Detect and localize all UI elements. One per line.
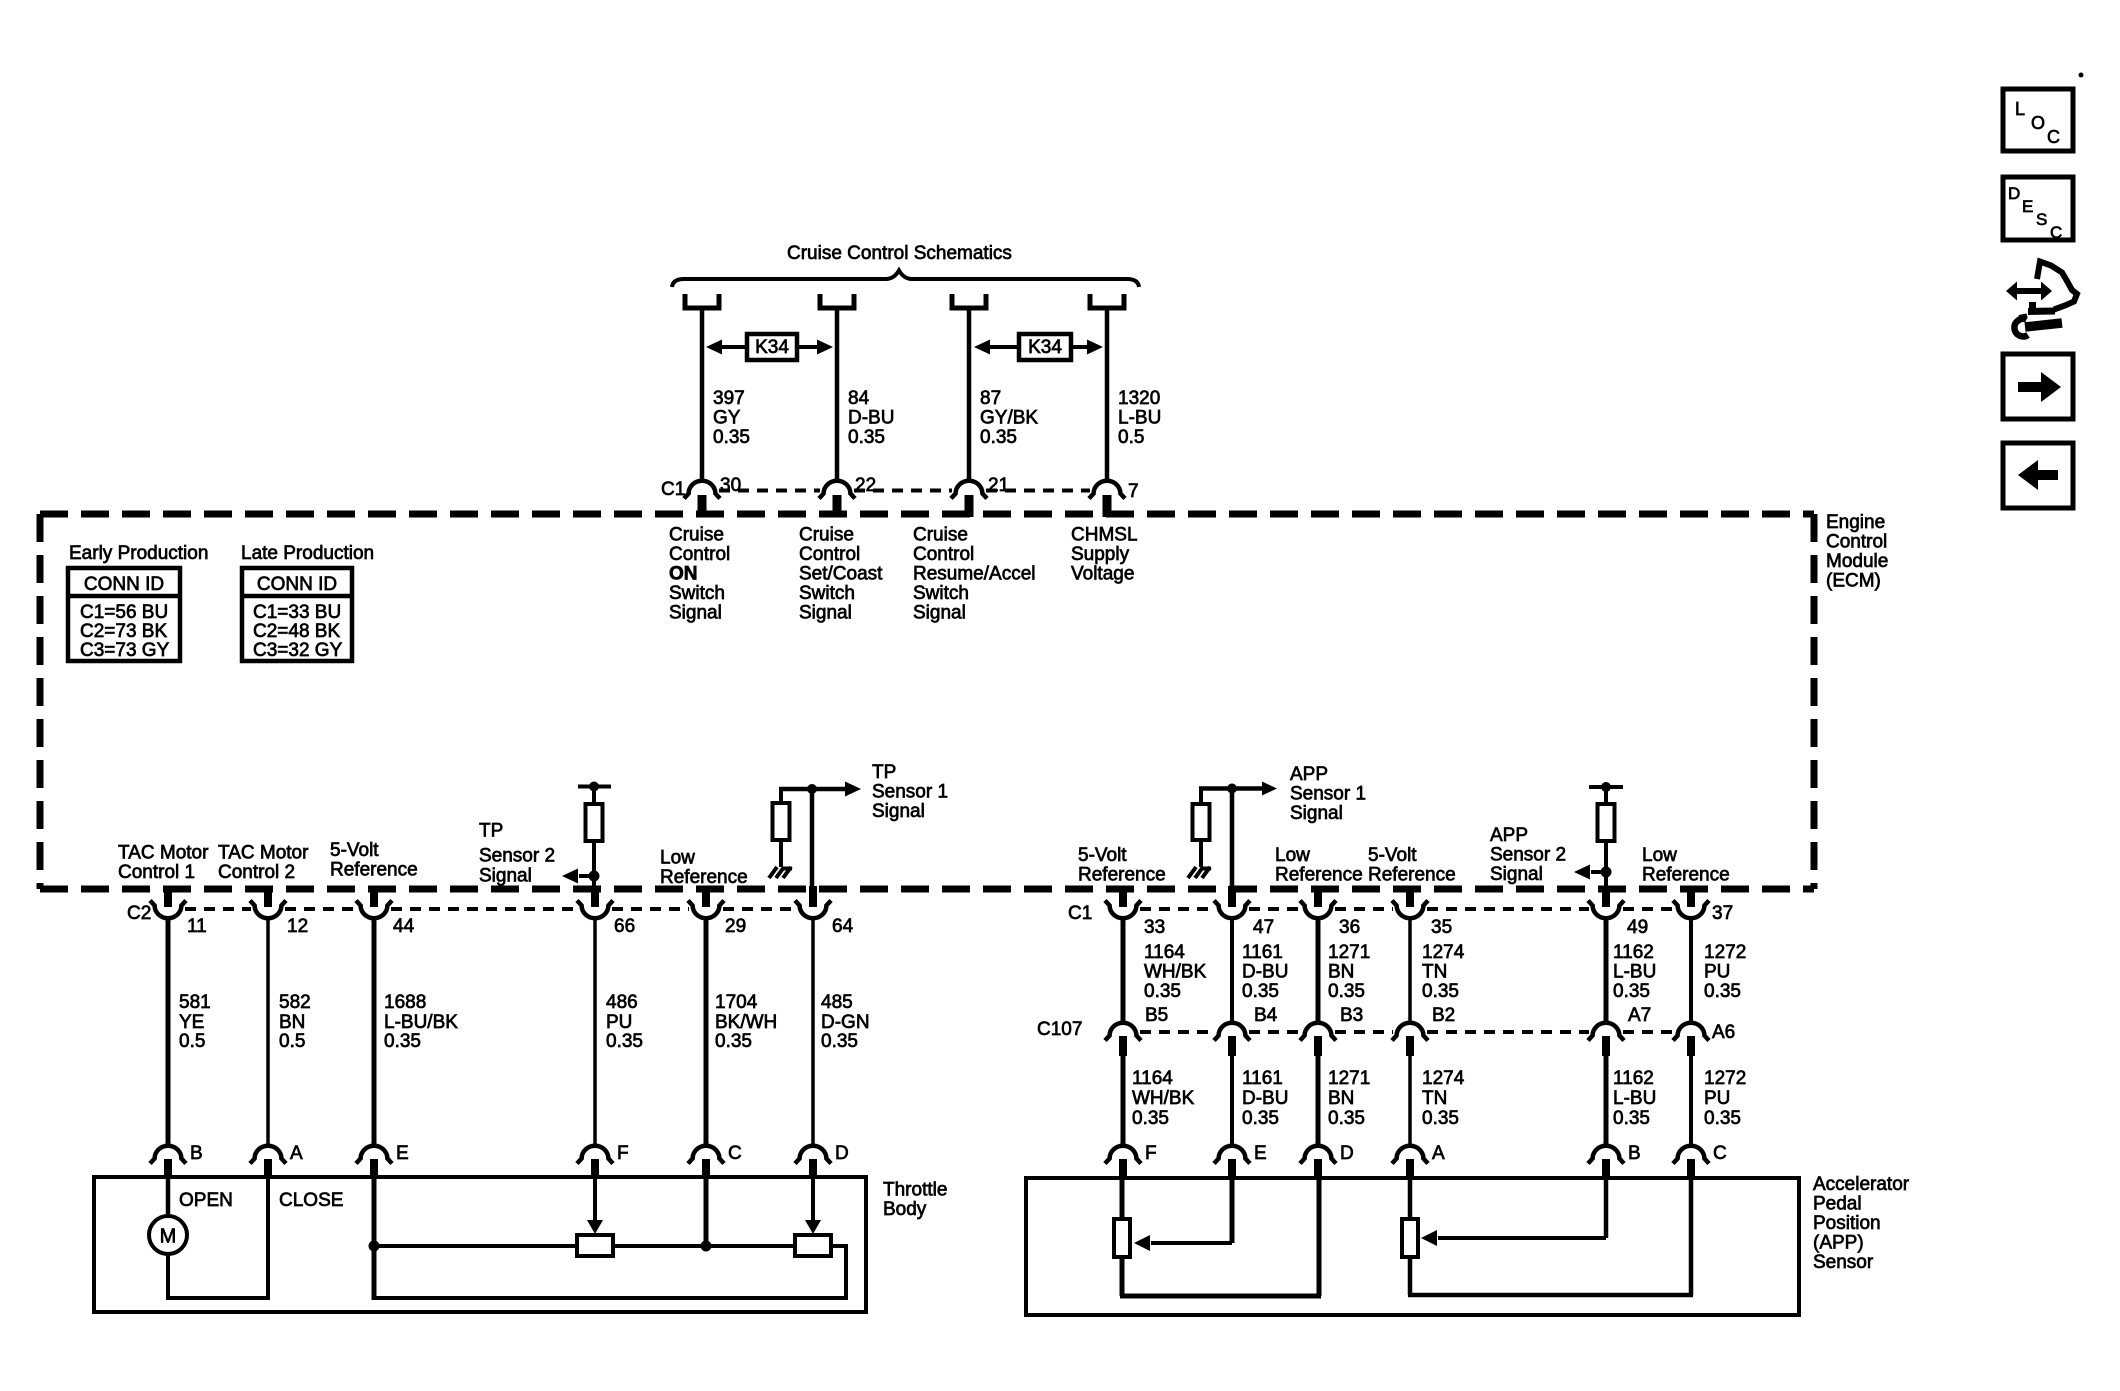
svg-text:1688: 1688 [384,992,426,1013]
APP potentiometer 2 string (pin A) [1408,1178,1413,1222]
svg-text:TN: TN [1422,1088,1447,1109]
resistor R-TP1 (TP sensor 1 pull-down) top wire [779,784,846,804]
svg-text:L-BU: L-BU [1613,1088,1656,1109]
svg-text:B5: B5 [1145,1005,1168,1026]
inline connector C107 pin B3 [1300,1005,1363,1056]
svg-text:GY/BK: GY/BK [980,408,1038,429]
svg-text:A: A [290,1143,303,1164]
APP sensor connector pin F [1105,1143,1157,1178]
svg-text:C: C [2047,127,2060,147]
svg-text:0.35: 0.35 [848,427,885,448]
wire label 397 GY 0.35 [713,388,750,448]
svg-text:L: L [2015,99,2025,119]
svg-text:APP: APP [1490,825,1528,846]
svg-text:TAC Motor: TAC Motor [118,843,209,864]
svg-text:1164: 1164 [1132,1068,1173,1089]
wire label 1272 PU 0.35 (lower) [1704,1068,1746,1129]
wire below R-APP2 with junction [1601,841,1612,904]
svg-text:C1=33 BU: C1=33 BU [253,602,341,623]
APP pot 1 bottom to pin D [1120,1178,1321,1296]
svg-text:A6: A6 [1712,1022,1735,1043]
table CONN ID (late production) [242,568,352,661]
svg-text:L-BU: L-BU [1613,962,1656,983]
svg-text:L-BU/BK: L-BU/BK [384,1012,458,1033]
connector dashed line C107 [1140,1030,1674,1034]
svg-text:E: E [396,1143,409,1164]
APP potentiometer 1 string (pin F) [1120,1178,1125,1222]
svg-text:Body: Body [883,1199,927,1220]
wire label 84 D-BU 0.35 [848,388,894,448]
svg-text:(ECM): (ECM) [1826,571,1881,592]
svg-text:0.35: 0.35 [1328,1108,1365,1129]
svg-text:Low: Low [1642,845,1677,866]
svg-text:1161: 1161 [1242,1068,1283,1089]
accelerator pedal position sensor box [1026,1178,1799,1315]
label APP Sensor 1 Signal [1290,764,1366,824]
wire TP Sensor 1 junction down to pin 64 [810,789,815,904]
svg-text:D-GN: D-GN [821,1012,870,1033]
wire label 1320 L-BU 0.5 [1118,388,1161,448]
ECM connector C2 pin 64 [795,886,854,937]
svg-text:Late Production: Late Production [241,543,374,564]
svg-text:Signal: Signal [479,866,532,887]
APP potentiometer 1 body [1114,1219,1130,1257]
svg-text:Cruise: Cruise [913,525,968,546]
svg-text:Switch: Switch [669,583,725,604]
component location icon (arrow into outline + wrench) [2006,262,2077,337]
ground below R-TP1 [769,840,792,878]
svg-text:BK/WH: BK/WH [715,1012,777,1033]
wire label 1271 BN 0.35 (lower) [1328,1068,1370,1129]
wire circuit 84 D-BU [835,310,840,482]
resistor R-APP1 body [1193,804,1210,840]
svg-text:Reference: Reference [1368,865,1456,886]
wire label 1704 BK/WH 0.35 [715,992,777,1052]
wire label 1161 D-BU 0.35 (lower) [1242,1068,1288,1129]
arrow left from K34 box 2 [974,340,1019,355]
table CONN ID (early production) [68,568,180,661]
svg-text:Switch: Switch [799,583,855,604]
svg-text:YE: YE [179,1012,204,1033]
svg-text:K34: K34 [755,337,789,358]
label Throttle Body [883,1180,947,1221]
connector label C2 [127,903,151,924]
wire label 1164 WH/BK 0.35 (lower) [1132,1068,1195,1129]
wire circuit 1272 PU (C107 to APP sensor) [1689,1056,1693,1146]
wire circuit 1688 L-BU/BK [372,918,377,1146]
svg-text:Voltage: Voltage [1071,564,1134,585]
svg-text:TN: TN [1422,962,1447,983]
APP sensor connector pin C [1673,1143,1727,1178]
svg-text:1162: 1162 [1613,1068,1654,1089]
svg-text:Signal: Signal [913,603,966,624]
svg-text:5-Volt: 5-Volt [1078,845,1127,866]
svg-text:Engine: Engine [1826,512,1885,533]
svg-text:0.35: 0.35 [821,1031,858,1052]
svg-text:CHMSL: CHMSL [1071,525,1138,546]
wire label 1164 WH/BK 0.35 (upper) [1144,942,1207,1002]
svg-text:33: 33 [1144,917,1165,938]
svg-text:Switch: Switch [913,583,969,604]
svg-text:PU: PU [1704,1088,1730,1109]
ECM connector C1 pin 47 [1214,886,1274,938]
label Accelerator Pedal Position (APP) Sensor [1813,1174,1910,1273]
label 5-Volt Reference (left) [330,840,418,881]
K34 relay box 1 [747,334,797,360]
svg-text:1272: 1272 [1704,1068,1746,1089]
svg-text:Control 1: Control 1 [118,862,195,883]
svg-text:87: 87 [980,388,1001,409]
throttle body connector pin A [250,1143,303,1178]
ECM connector C1 pin 33 [1105,886,1165,938]
throttle body connector pin B [150,1143,203,1178]
wire APP Sensor 1 junction down to pin 47 [1230,789,1235,905]
svg-text:35: 35 [1431,917,1452,938]
svg-text:E: E [2022,197,2033,216]
wire label 1274 TN 0.35 (upper) [1422,942,1465,1002]
wire circuit 1274 TN (C107 to APP sensor) [1408,1056,1412,1146]
svg-text:5-Volt: 5-Volt [330,840,379,861]
throttle position resistor line [374,1244,846,1248]
K34 relay box 2 [1019,334,1071,360]
inline connector C107 pin B2 [1392,1005,1455,1056]
connector terminal 4 (cruise switch lead) [1090,294,1124,308]
svg-text:GY: GY [713,408,741,429]
svg-text:1161: 1161 [1242,942,1283,963]
wire circuit 397 GY [700,310,705,482]
wire label 581 YE 0.5 [179,992,211,1052]
svg-text:1164: 1164 [1144,942,1185,963]
resistor R-TP1 body [773,803,790,840]
svg-text:Set/Coast: Set/Coast [799,564,883,585]
svg-text:397: 397 [713,388,745,409]
svg-text:Control 2: Control 2 [218,862,295,883]
svg-text:0.35: 0.35 [1132,1108,1169,1129]
svg-text:C2=73 BK: C2=73 BK [80,621,167,642]
label Low Reference (APP 1) [1275,845,1363,886]
wire pin E into throttle body [369,1178,380,1300]
connector label C1 (ECM bottom right) [1068,903,1092,924]
DESC icon box [2003,177,2073,242]
svg-text:BN: BN [279,1012,305,1033]
label OPEN [179,1190,233,1211]
svg-text:Reference: Reference [660,867,748,888]
wire circuit 1161 D-BU (C107 to APP sensor) [1230,1056,1234,1146]
svg-text:1320: 1320 [1118,388,1160,409]
label APP Sensor 2 Signal [1490,825,1566,885]
svg-text:1271: 1271 [1328,1068,1370,1089]
svg-text:11: 11 [187,916,207,937]
svg-text:Sensor 1: Sensor 1 [872,782,948,803]
wire circuit 486 PU [593,918,597,1146]
svg-text:Early Production: Early Production [69,543,208,564]
svg-text:BN: BN [1328,962,1354,983]
connector terminal 3 (cruise switch lead) [952,294,986,308]
label Engine Control Module (ECM) [1826,512,1888,592]
svg-text:B: B [190,1143,203,1164]
svg-text:582: 582 [279,992,311,1013]
label 5-Volt Reference (APP 1) [1078,845,1166,886]
svg-text:D-BU: D-BU [1242,962,1288,983]
APP pot 2 bottom to pin C [1408,1178,1693,1295]
ground below R-APP1 [1188,840,1211,878]
wire circuit 1271 BN (ECM to C107) [1316,918,1321,1024]
svg-text:0.35: 0.35 [1613,981,1650,1002]
svg-text:Pedal: Pedal [1813,1194,1862,1215]
APP potentiometer 2 body [1402,1219,1418,1257]
svg-text:1271: 1271 [1328,942,1370,963]
label Low Reference (left) [660,848,748,889]
label Cruise Control ON Switch Signal [669,525,730,624]
svg-text:0.35: 0.35 [980,427,1017,448]
svg-text:7: 7 [1128,481,1139,502]
APP pot 1 wiper arrow from pin E [1134,1178,1232,1251]
svg-text:D-BU: D-BU [1242,1088,1288,1109]
resistor R-TP2 (TP sensor 2 pull-up) top tie bar [578,782,611,792]
arrow right from K34 box 1 [797,340,833,355]
ECM connector C2 pin 12 [250,886,308,937]
ECM connector C2 pin 66 [577,886,635,937]
svg-text:66: 66 [614,916,635,937]
junction pin C on resistor line [701,1178,712,1252]
svg-text:0.35: 0.35 [1422,1108,1459,1129]
svg-text:CLOSE: CLOSE [279,1190,343,1211]
connector terminal 2 (cruise switch lead) [820,294,854,308]
throttle body connector pin F [577,1143,629,1178]
APP sensor connector pin E [1214,1143,1267,1178]
throttle body connector pin D [795,1143,849,1178]
ECM dashed border (Engine Control Module box) [40,514,1814,889]
svg-text:E: E [1254,1143,1267,1164]
svg-text:Control: Control [669,544,730,565]
throttle resistor return wire [374,1244,848,1298]
svg-text:64: 64 [832,916,854,937]
svg-text:M: M [160,1226,177,1248]
svg-text:Signal: Signal [799,603,852,624]
forward arrow icon box [2003,354,2073,419]
ECM connector C1 pin 36 [1300,886,1360,938]
svg-text:Control: Control [1826,532,1887,553]
svg-text:Sensor 2: Sensor 2 [1490,845,1566,866]
label Cruise Control Resume/Accel Switch Signal [913,525,1036,624]
label TP Sensor 2 Signal [479,821,555,887]
ECM connector C1 pin 30 [684,475,741,517]
svg-text:0.35: 0.35 [1613,1108,1650,1129]
inline connector C107 pin B5 [1105,1005,1168,1056]
svg-text:486: 486 [606,992,638,1013]
svg-text:Cruise Control Schematics: Cruise Control Schematics [787,243,1012,264]
svg-text:TP: TP [872,762,896,783]
svg-text:0.35: 0.35 [1242,981,1279,1002]
inline connector C107 pin A7 [1588,1005,1651,1056]
svg-text:0.5: 0.5 [179,1031,205,1052]
wire label 1161 D-BU 0.35 (upper) [1242,942,1288,1002]
resistor R-APP1 (APP sensor 1 pull-down) top wire [1199,784,1237,805]
svg-text:Signal: Signal [1290,803,1343,824]
svg-text:C3=73 GY: C3=73 GY [80,640,170,661]
svg-text:PU: PU [1704,962,1730,983]
APP pot 2 wiper arrow from pin B [1421,1178,1606,1246]
svg-text:Signal: Signal [669,603,722,624]
svg-text:44: 44 [393,916,415,937]
wire circuit 1274 TN (ECM to C107) [1408,918,1412,1024]
svg-text:0.5: 0.5 [279,1031,305,1052]
svg-text:0.35: 0.35 [1704,981,1741,1002]
svg-text:Supply: Supply [1071,544,1130,565]
svg-text:36: 36 [1339,917,1360,938]
svg-text:C: C [1713,1143,1727,1164]
wire label 1162 L-BU 0.35 (upper) [1613,942,1656,1002]
svg-text:Control: Control [799,544,860,565]
wire label 1271 BN 0.35 (upper) [1328,942,1370,1002]
wire circuit 485 D-GN [811,918,815,1146]
wire circuit 1162 L-BU (C107 to APP sensor) [1604,1056,1609,1146]
LOC icon box [2003,89,2073,151]
wire label 485 D-GN 0.35 [821,992,870,1052]
svg-text:B: B [1628,1143,1641,1164]
wire pin B to motor [166,1178,171,1217]
wire circuit 1162 L-BU (ECM to C107) [1604,918,1609,1024]
svg-text:1704: 1704 [715,992,758,1013]
wire label 1162 L-BU 0.35 (lower) [1613,1068,1656,1129]
svg-text:CONN ID: CONN ID [84,574,164,595]
wire circuit 1704 BK/WH [704,918,709,1146]
ECM connector C1 pin 49 [1588,886,1648,938]
svg-text:F: F [1145,1143,1157,1164]
svg-text:A: A [1432,1143,1445,1164]
svg-text:D: D [835,1143,849,1164]
inline connector C107 pin A6 [1673,1022,1735,1056]
wire circuit 1161 D-BU (ECM to C107) [1230,918,1234,1024]
svg-text:21: 21 [988,475,1009,496]
svg-text:L-BU: L-BU [1118,408,1161,429]
ECM connector C2 pin 29 [688,886,746,937]
ECM connector C2 pin 44 [356,886,415,937]
TP sensor potentiometer 2 [795,1235,831,1256]
svg-text:PU: PU [606,1012,632,1033]
back arrow icon box [2003,443,2073,508]
svg-text:0.5: 0.5 [1118,427,1144,448]
TP sensor potentiometer 1 [577,1235,613,1256]
arrow to APP Sensor 1 Signal (points right) [1232,782,1277,796]
svg-text:Sensor: Sensor [1813,1252,1874,1273]
ECM connector C1 pin 22 [819,475,876,517]
svg-text:WH/BK: WH/BK [1144,962,1207,983]
svg-text:47: 47 [1253,917,1274,938]
wire label 87 GY/BK 0.35 [980,388,1038,448]
svg-text:K34: K34 [1028,337,1062,358]
svg-text:C: C [2050,223,2062,242]
svg-text:Reference: Reference [330,860,418,881]
wire circuit 1320 L-BU [1105,310,1110,482]
svg-text:0.35: 0.35 [1422,981,1459,1002]
svg-text:0.35: 0.35 [384,1031,421,1052]
wiper arrow from pin F [587,1178,603,1234]
svg-text:C3=32 GY: C3=32 GY [253,640,343,661]
svg-text:F: F [617,1143,629,1164]
svg-text:Cruise: Cruise [799,525,854,546]
connector terminal 1 (cruise switch lead) [685,294,719,308]
resistor R-TP2 body [586,787,603,842]
svg-text:Sensor 1: Sensor 1 [1290,784,1366,805]
wire circuit 1272 PU (ECM to C107) [1689,918,1693,1024]
svg-text:BN: BN [1328,1088,1354,1109]
throttle body box [94,1177,866,1312]
wire label 1272 PU 0.35 (upper) [1704,942,1746,1002]
label TP Sensor 1 Signal [872,762,948,822]
svg-text:C107: C107 [1037,1019,1082,1040]
arrow to TP Sensor 1 Signal (points right) [845,782,861,797]
svg-text:12: 12 [287,916,308,937]
svg-text:APP: APP [1290,764,1328,785]
svg-text:1272: 1272 [1704,942,1746,963]
connector label C1 (ECM top) [661,479,685,500]
svg-text:B4: B4 [1254,1005,1278,1026]
tiny period mark top right [2079,73,2084,78]
svg-text:Reference: Reference [1275,865,1363,886]
wire label 486 PU 0.35 [606,992,643,1052]
svg-text:Signal: Signal [872,801,925,822]
svg-text:84: 84 [848,388,870,409]
svg-text:C1: C1 [661,479,685,500]
svg-text:0.35: 0.35 [715,1031,752,1052]
svg-text:(APP): (APP) [1813,1233,1864,1254]
svg-text:0.35: 0.35 [1242,1108,1279,1129]
svg-text:CONN ID: CONN ID [257,574,337,595]
wire circuit 581 YE [166,918,171,1146]
svg-text:OPEN: OPEN [179,1190,233,1211]
svg-text:0.35: 0.35 [1328,981,1365,1002]
motor M [149,1216,187,1254]
APP sensor connector pin B [1588,1143,1641,1178]
ECM connector C1 pin 35 [1392,886,1452,938]
wire circuit 1164 WH/BK (ECM to C107) [1121,918,1126,1024]
label Low Reference (APP 2) [1642,845,1730,886]
ECM connector C2 pin 11 [150,886,207,937]
APP sensor connector pin A [1392,1143,1445,1178]
arrow left from K34 box 1 [706,340,747,355]
ECM connector C1 pin 21 [951,475,1009,517]
svg-text:A7: A7 [1628,1005,1651,1026]
svg-text:Resume/Accel: Resume/Accel [913,564,1036,585]
svg-text:D-BU: D-BU [848,408,894,429]
svg-text:Low: Low [660,848,695,869]
wiper arrow from pin D [805,1178,821,1234]
svg-text:0.35: 0.35 [606,1031,643,1052]
inline connector C107 pin B4 [1214,1005,1278,1056]
svg-text:1274: 1274 [1422,942,1465,963]
svg-text:Throttle: Throttle [883,1180,947,1201]
svg-text:Reference: Reference [1642,865,1730,886]
svg-text:22: 22 [855,475,876,496]
ECM connector C1 pin 37 [1673,886,1733,924]
label Late Production [241,543,374,564]
throttle body connector pin E [356,1143,409,1178]
wire label 1274 TN 0.35 (lower) [1422,1068,1465,1129]
wire below R-TP2 with junction [589,841,600,904]
svg-text:Low: Low [1275,845,1310,866]
svg-text:B2: B2 [1432,1005,1455,1026]
arrow to TP Sensor 2 Signal (points left) [562,869,594,884]
svg-text:TAC Motor: TAC Motor [218,843,309,864]
svg-text:29: 29 [725,916,746,937]
svg-text:49: 49 [1627,917,1648,938]
svg-text:C2=48 BK: C2=48 BK [253,621,340,642]
wire circuit 87 GY/BK [967,310,972,482]
svg-text:WH/BK: WH/BK [1132,1088,1195,1109]
label Cruise Control Set/Coast Switch Signal [799,525,883,624]
wire circuit 1271 BN (C107 to APP sensor) [1316,1056,1321,1146]
